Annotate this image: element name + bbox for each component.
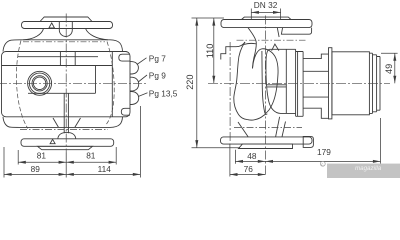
chamber center line: [229, 42, 231, 143]
hidden volute arcs left view: [16, 41, 114, 129]
body seam: [111, 52, 113, 117]
svg-text:114: 114: [98, 164, 112, 174]
funnel slant right: [75, 118, 81, 127]
dim line 110: [213, 18, 215, 83]
svg-text:81: 81: [86, 151, 96, 161]
hidden arc right: [107, 42, 115, 125]
bottom union block: [303, 136, 313, 147]
DN32 ext left: [250, 9, 252, 20]
pipe center line: [264, 16, 266, 177]
svg-text:49: 49: [384, 64, 394, 74]
dim line 76: [230, 174, 266, 176]
vertical center line left view: [65, 14, 67, 153]
ext 48 left: [234, 150, 236, 164]
pipe stub lines lower: [64, 93, 68, 133]
pipe stub lines upper: [60, 52, 75, 66]
right view center lines: [208, 16, 390, 177]
DN32 ext right: [280, 9, 282, 20]
hidden volute top connector: [23, 41, 105, 43]
bottom neck right outer: [282, 122, 286, 137]
svg-text:magazilla: magazilla: [355, 165, 382, 172]
leader Pg13.5: [138, 93, 147, 97]
dash-dot bottom joint left view: [20, 129, 108, 131]
svg-text:81: 81: [37, 151, 47, 161]
cable tab top: [119, 54, 130, 61]
gland boss Pg13.5: [130, 92, 139, 105]
cap outline: [266, 49, 296, 113]
svg-text:110: 110: [205, 44, 215, 59]
volute flap: [272, 44, 279, 51]
pipe stub U below top bar: [59, 22, 72, 37]
top flange bar: [22, 22, 113, 29]
leader lines: [137, 58, 148, 97]
svg-text:Pg 13,5: Pg 13,5: [149, 88, 178, 98]
flow direction triangle: [49, 23, 55, 28]
top flange bar: [221, 20, 312, 28]
front panel right edge: [95, 66, 97, 94]
ext line center bottom: [65, 153, 67, 178]
cap equator: [266, 85, 286, 87]
end slab 3: [377, 57, 380, 111]
gland boss Pg7: [130, 62, 138, 74]
motor body: [332, 52, 370, 115]
dim line 48-179: [235, 160, 380, 162]
ext line bar left: [17, 150, 19, 165]
svg-text:48: 48: [247, 151, 257, 161]
ext line body left: [3, 147, 5, 178]
shoulder outline: [3, 40, 123, 52]
bottom neck right: [276, 117, 280, 137]
lantern body edge: [302, 52, 304, 117]
end slab 2: [373, 55, 377, 112]
bottom dome: [58, 132, 76, 138]
svg-text:DN 32: DN 32: [254, 0, 278, 10]
union joint bottom: [234, 127, 302, 129]
bottom shoulder outline: [3, 117, 123, 128]
funnel slant left: [53, 118, 59, 127]
top chamfered strip: [242, 17, 292, 19]
bell left profile: [234, 42, 248, 120]
leader Pg9: [138, 75, 147, 82]
svg-text:Pg 7: Pg 7: [149, 53, 166, 63]
svg-text:Pg 9: Pg 9: [149, 71, 166, 81]
center / axis lines: [0, 14, 146, 153]
neck left S-line: [248, 28, 256, 69]
hidden arc left: [16, 41, 27, 129]
ext 179 right: [380, 118, 382, 164]
bottom flange bar: [21, 139, 114, 147]
dim line 220: [196, 18, 198, 148]
bottom flange bar: [221, 137, 313, 144]
ext line boss right: [139, 106, 141, 178]
ext line top: [192, 17, 225, 19]
ext line bottom: [192, 147, 241, 149]
ext line bar right: [115, 147, 117, 165]
svg-text:76: 76: [244, 164, 254, 174]
bell bottom: [247, 114, 267, 120]
DN32 dim line: [251, 11, 280, 13]
cap right edge: [295, 49, 297, 113]
union joint top: [237, 39, 306, 41]
bottom chamfered plate: [38, 146, 93, 149]
neck right line: [277, 28, 279, 37]
shoulder curve left: [23, 29, 44, 40]
union lip right: [281, 28, 311, 35]
volute ledge: [221, 42, 245, 60]
horizontal axis left view: [0, 82, 146, 84]
bottom neck left: [238, 122, 248, 137]
cap seam: [285, 49, 287, 113]
ext 76 left: [229, 144, 231, 177]
dim line 89-114: [4, 173, 140, 175]
svg-text:220: 220: [185, 74, 195, 89]
cable tab bottom: [121, 108, 130, 115]
top chamfered plate: [40, 17, 92, 22]
bolt lug bottom: [303, 97, 328, 118]
49 dim line: [394, 53, 396, 83]
svg-text:89: 89: [31, 164, 41, 174]
leader Pg7: [137, 58, 147, 65]
gland boss Pg9: [130, 77, 139, 91]
front panel bottom: [28, 92, 96, 94]
49 ext top: [381, 52, 398, 54]
end slab 1: [369, 53, 372, 113]
dome inner edge: [262, 51, 265, 114]
dome arch: [253, 49, 279, 114]
dim line 81-81: [18, 161, 116, 163]
svg-text:179: 179: [317, 147, 331, 157]
bell peak: [244, 42, 256, 45]
lantern collar: [296, 52, 304, 117]
bottom triangle: [50, 139, 55, 143]
main body: [2, 52, 131, 117]
clamp ring line: [18, 56, 98, 58]
motor axis: [208, 82, 390, 84]
shaft plug circles: [28, 71, 52, 95]
shoulder curve right: [86, 29, 109, 40]
motor flange plate: [329, 48, 332, 119]
watermark band: [320, 161, 400, 178]
bottom chamfered plate: [239, 144, 293, 148]
stator face line: [2, 65, 113, 67]
bolt lug top: [303, 54, 328, 71]
